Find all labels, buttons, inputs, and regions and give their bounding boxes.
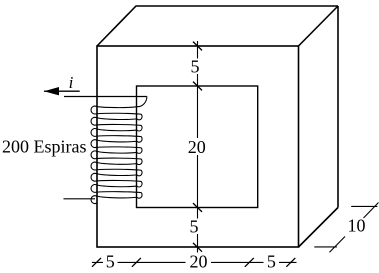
tick at bottom edge (193, 243, 202, 252)
current arrow line (44, 90, 80, 92)
svg-text:200 Espiras: 200 Espiras (2, 137, 87, 157)
core top face (97, 6, 338, 46)
tick window right (245, 258, 254, 267)
svg-text:5: 5 (190, 217, 199, 237)
tick bottom-left corner (92, 258, 101, 267)
tick at top edge (193, 42, 202, 51)
tick window left (132, 258, 141, 267)
coil turn 6 (91, 162, 142, 176)
svg-text:10: 10 (348, 216, 366, 236)
depth dimension diagonal (330, 203, 379, 253)
svg-text:5: 5 (267, 252, 276, 272)
svg-text:5: 5 (106, 252, 115, 272)
coil entry hook (138, 97, 147, 107)
coil turn 8 (91, 185, 142, 199)
core back-right edge (337, 6, 339, 208)
coil turn 5 (91, 151, 142, 165)
tick at window bottom (193, 203, 202, 212)
svg-text:i: i (69, 73, 74, 92)
coil turn 2 (91, 117, 142, 131)
vertical dimension line (197, 41, 199, 253)
bottom lead wire (64, 198, 96, 200)
depth dimension upper stub (351, 205, 377, 207)
core front face (97, 46, 299, 247)
bottom dimension line (92, 261, 297, 263)
coil entry return stroke (97, 107, 138, 108)
coil turn 9 (91, 196, 97, 204)
tick bottom-right (286, 258, 295, 267)
coil turn 4 (91, 140, 142, 154)
svg-text:20: 20 (188, 137, 206, 157)
coil turn 1 (91, 106, 142, 120)
current arrowhead (44, 87, 59, 95)
tick at window top (193, 82, 202, 91)
core bottom-right depth edge (299, 208, 339, 248)
core window (137, 86, 258, 208)
coil turn 7 (91, 173, 142, 187)
core top-right depth edge (299, 6, 339, 46)
svg-text:5: 5 (191, 56, 200, 76)
svg-text:20: 20 (190, 252, 208, 272)
coil turn 3 (91, 129, 142, 143)
top lead wire (64, 96, 147, 98)
depth dimension lower stub (314, 246, 337, 248)
